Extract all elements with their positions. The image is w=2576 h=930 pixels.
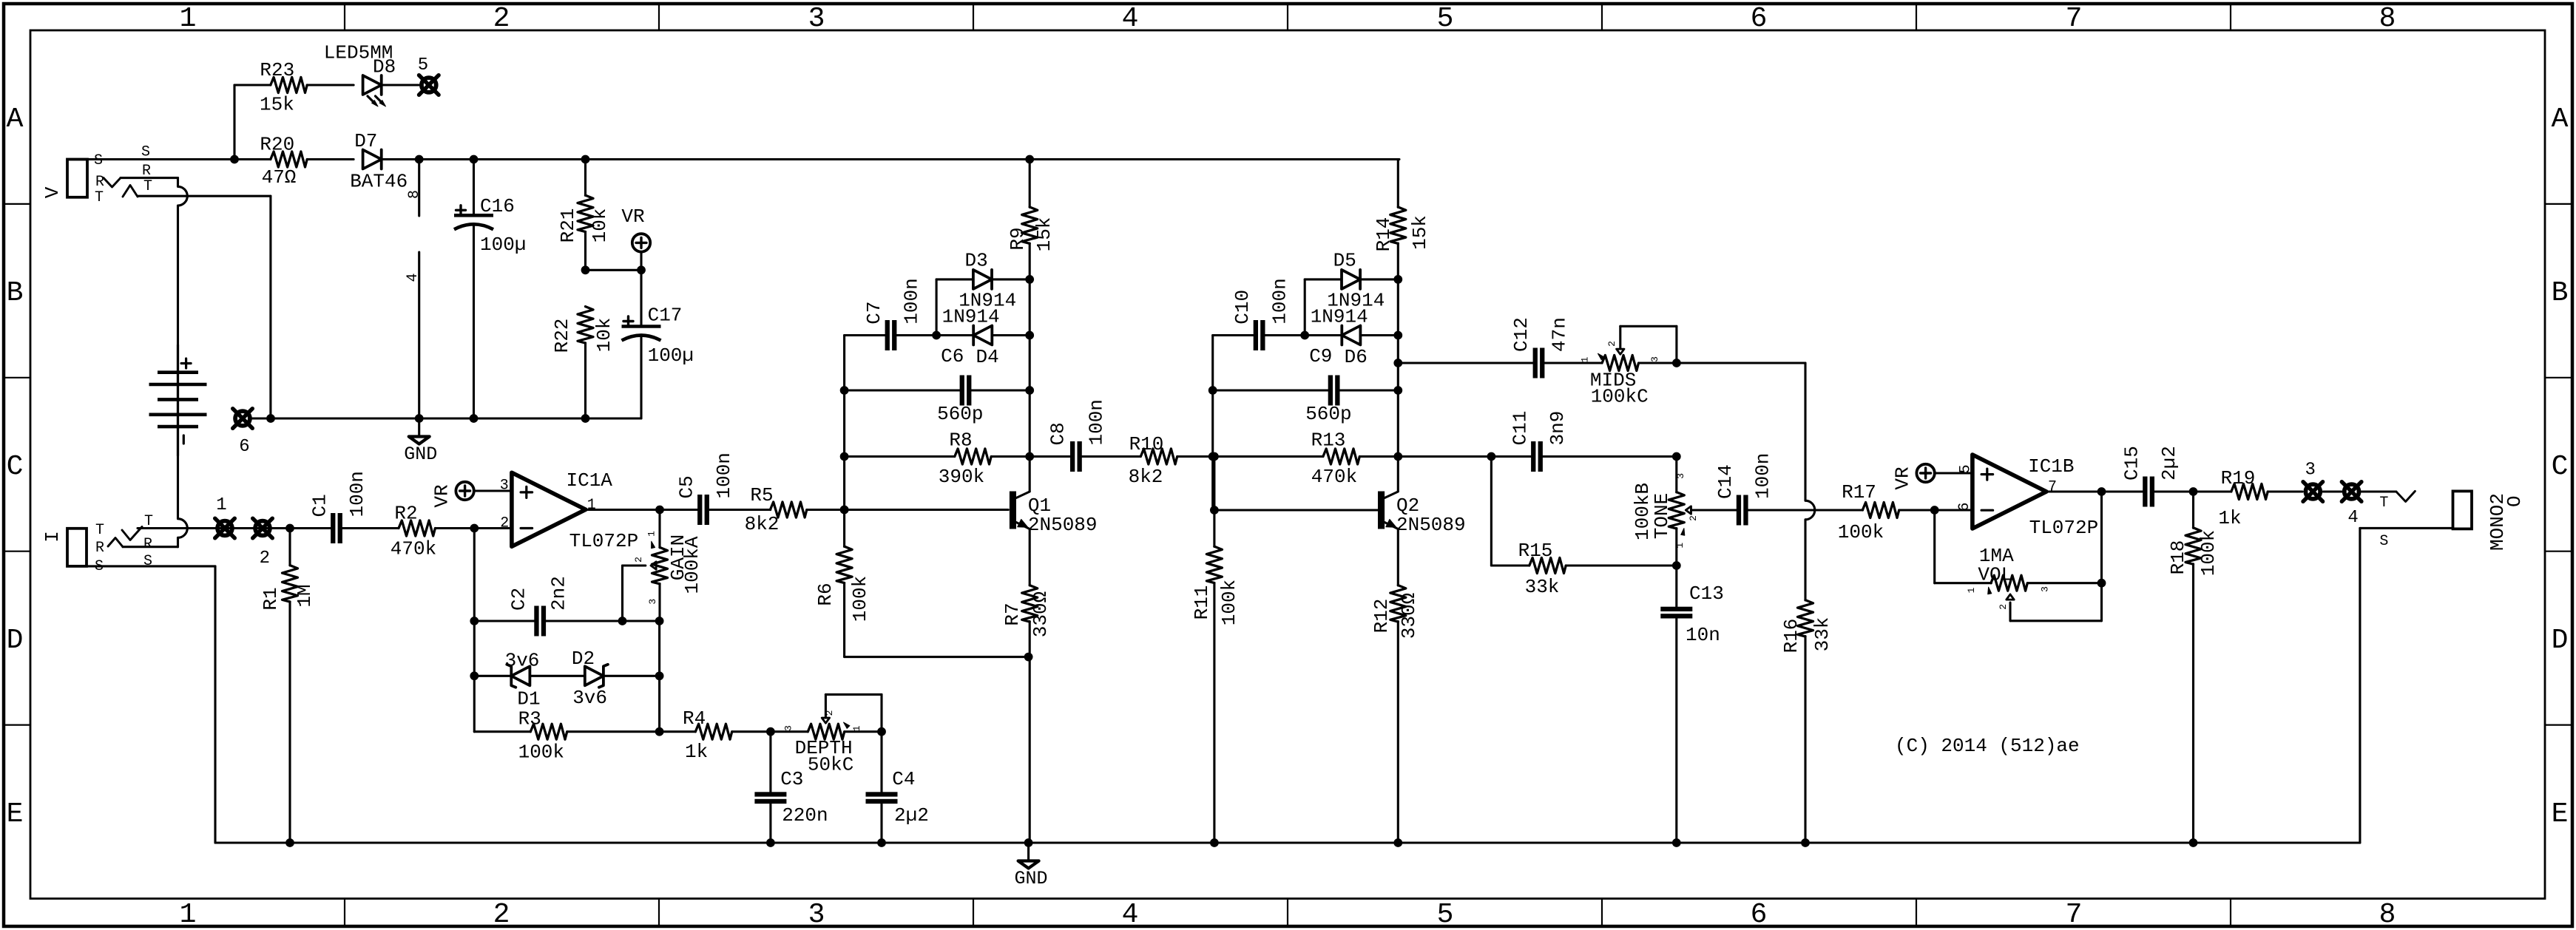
- svg-text:R12: R12: [1370, 599, 1393, 634]
- svg-text:100µ: 100µ: [648, 344, 694, 367]
- svg-text:T: T: [2379, 495, 2388, 512]
- svg-text:D5: D5: [1333, 250, 1356, 272]
- svg-text:C8: C8: [1047, 422, 1069, 445]
- svg-text:T: T: [95, 522, 104, 539]
- svg-text:(C) 2014 (512)ae: (C) 2014 (512)ae: [1895, 735, 2080, 757]
- svg-text:10k: 10k: [589, 208, 611, 243]
- svg-text:1: 1: [216, 495, 226, 515]
- svg-text:R4: R4: [683, 707, 706, 730]
- svg-text:GND: GND: [404, 444, 437, 465]
- svg-text:7: 7: [2048, 479, 2057, 496]
- svg-text:2N5089: 2N5089: [1396, 514, 1466, 536]
- svg-text:R3: R3: [518, 707, 541, 730]
- svg-text:390k: 390k: [939, 466, 984, 488]
- svg-text:C9: C9: [1309, 345, 1332, 367]
- svg-text:8: 8: [2379, 3, 2396, 35]
- svg-text:TL072P: TL072P: [2029, 517, 2099, 539]
- svg-text:E: E: [2552, 798, 2569, 830]
- svg-text:R22: R22: [551, 319, 573, 353]
- svg-text:15k: 15k: [1033, 217, 1055, 252]
- svg-text:R5: R5: [750, 484, 773, 506]
- svg-text:8: 8: [406, 190, 423, 199]
- svg-text:3: 3: [808, 3, 825, 35]
- svg-text:2: 2: [1688, 515, 1699, 521]
- svg-text:5: 5: [1957, 464, 1974, 473]
- svg-text:10k: 10k: [593, 318, 615, 353]
- svg-text:R23: R23: [260, 59, 294, 81]
- svg-text:V: V: [41, 186, 64, 198]
- svg-text:E: E: [7, 798, 24, 830]
- svg-text:3v6: 3v6: [505, 650, 540, 672]
- svg-text:1: 1: [180, 3, 197, 35]
- svg-text:R17: R17: [1842, 481, 1876, 503]
- svg-text:D7: D7: [354, 130, 377, 152]
- svg-text:R11: R11: [1191, 586, 1213, 620]
- svg-text:VOL: VOL: [1978, 564, 2012, 586]
- svg-text:2: 2: [493, 899, 510, 930]
- svg-text:B: B: [7, 277, 24, 309]
- svg-text:33k: 33k: [1525, 576, 1560, 598]
- svg-text:3: 3: [1675, 473, 1686, 479]
- svg-text:TONE: TONE: [1651, 493, 1673, 539]
- svg-text:C: C: [7, 451, 24, 483]
- svg-text:D2: D2: [572, 648, 595, 670]
- svg-text:2: 2: [824, 710, 835, 716]
- svg-text:3: 3: [783, 725, 794, 731]
- svg-text:47Ω: 47Ω: [262, 166, 297, 189]
- svg-text:6: 6: [1751, 3, 1768, 35]
- svg-text:C1: C1: [309, 494, 331, 517]
- svg-text:2: 2: [493, 3, 510, 35]
- svg-text:R20: R20: [260, 134, 294, 156]
- svg-text:4: 4: [2347, 508, 2358, 528]
- svg-text:330Ω: 330Ω: [1030, 591, 1052, 637]
- svg-text:7: 7: [2066, 899, 2083, 930]
- svg-text:R16: R16: [1780, 619, 1802, 654]
- svg-text:100n: 100n: [1752, 453, 1774, 499]
- svg-text:6: 6: [1751, 899, 1768, 930]
- svg-text:C11: C11: [1510, 411, 1532, 446]
- svg-text:R: R: [143, 536, 152, 553]
- svg-text:C15: C15: [2121, 446, 2143, 481]
- svg-text:S: S: [2379, 533, 2388, 550]
- svg-text:C10: C10: [1231, 290, 1254, 325]
- svg-text:A: A: [7, 103, 24, 135]
- svg-text:VR: VR: [1892, 466, 1914, 489]
- svg-text:D8: D8: [373, 55, 396, 78]
- svg-text:33k: 33k: [1811, 617, 1833, 652]
- svg-text:2: 2: [260, 549, 270, 568]
- svg-text:6: 6: [239, 437, 249, 457]
- svg-text:R10: R10: [1129, 433, 1164, 455]
- svg-text:2: 2: [1606, 341, 1617, 347]
- svg-text:IC1B: IC1B: [2028, 455, 2074, 478]
- svg-text:3: 3: [808, 899, 825, 930]
- svg-text:R: R: [95, 540, 104, 557]
- svg-text:5: 5: [1437, 899, 1454, 930]
- svg-text:2: 2: [633, 557, 644, 563]
- svg-text:6: 6: [1956, 503, 1973, 512]
- svg-text:470k: 470k: [391, 538, 436, 560]
- svg-text:1: 1: [587, 497, 596, 514]
- svg-text:A: A: [2552, 103, 2569, 135]
- svg-text:R14: R14: [1373, 217, 1395, 252]
- svg-text:5: 5: [1437, 3, 1454, 35]
- svg-text:T: T: [143, 178, 152, 195]
- svg-text:100µ: 100µ: [480, 234, 526, 256]
- svg-text:C14: C14: [1714, 464, 1737, 499]
- svg-text:T: T: [144, 513, 153, 530]
- svg-text:4: 4: [1122, 899, 1139, 930]
- svg-text:C4: C4: [892, 768, 915, 790]
- svg-text:C6: C6: [941, 345, 964, 367]
- svg-text:D: D: [2552, 625, 2569, 656]
- svg-text:C: C: [2552, 451, 2569, 483]
- svg-text:8k2: 8k2: [745, 513, 780, 535]
- svg-text:C17: C17: [648, 305, 683, 327]
- svg-text:100n: 100n: [346, 471, 368, 517]
- svg-text:3: 3: [500, 477, 509, 494]
- svg-text:B: B: [2552, 277, 2569, 309]
- svg-text:2n2: 2n2: [548, 576, 570, 611]
- svg-text:8k2: 8k2: [1129, 466, 1163, 488]
- svg-text:100n: 100n: [1086, 399, 1108, 445]
- svg-text:1N914: 1N914: [942, 306, 1000, 328]
- svg-text:7: 7: [2066, 3, 2083, 35]
- svg-text:100k: 100k: [1218, 580, 1240, 625]
- svg-text:C13: C13: [1689, 583, 1724, 605]
- svg-text:3n9: 3n9: [1546, 411, 1569, 446]
- svg-text:470k: 470k: [1311, 466, 1357, 488]
- svg-text:D6: D6: [1345, 346, 1368, 368]
- svg-text:330Ω: 330Ω: [1398, 593, 1420, 639]
- svg-text:R19: R19: [2221, 467, 2256, 489]
- svg-text:3: 3: [1649, 356, 1660, 362]
- svg-text:GND: GND: [1014, 868, 1047, 889]
- svg-text:8: 8: [2379, 899, 2396, 930]
- svg-text:100kA: 100kA: [681, 536, 703, 594]
- svg-text:100kC: 100kC: [1591, 386, 1649, 408]
- svg-text:I: I: [41, 531, 64, 543]
- svg-text:560p: 560p: [1305, 403, 1351, 425]
- svg-text:1: 1: [180, 899, 197, 930]
- svg-text:3: 3: [2040, 586, 2051, 592]
- svg-text:1k: 1k: [685, 741, 708, 763]
- svg-text:BAT46: BAT46: [350, 170, 408, 192]
- svg-text:5: 5: [418, 55, 428, 75]
- svg-text:1M: 1M: [294, 584, 316, 607]
- svg-text:100n: 100n: [1269, 278, 1291, 324]
- svg-text:S: S: [141, 144, 150, 161]
- svg-text:1: 1: [1966, 587, 1977, 593]
- svg-text:R13: R13: [1311, 430, 1346, 452]
- svg-text:VR: VR: [621, 206, 644, 228]
- svg-text:1k: 1k: [2218, 507, 2241, 529]
- svg-text:15k: 15k: [1409, 215, 1431, 250]
- svg-text:D: D: [7, 625, 24, 656]
- svg-text:100n: 100n: [713, 452, 735, 498]
- svg-text:R: R: [142, 163, 151, 180]
- svg-text:1: 1: [851, 725, 862, 731]
- svg-text:15k: 15k: [260, 94, 294, 116]
- svg-text:R: R: [95, 174, 104, 191]
- svg-text:S: S: [143, 553, 152, 570]
- svg-text:R8: R8: [949, 430, 972, 452]
- svg-text:2: 2: [1998, 604, 2009, 610]
- svg-text:T: T: [95, 189, 104, 206]
- svg-text:TL072P: TL072P: [569, 530, 639, 552]
- svg-text:D1: D1: [517, 688, 540, 710]
- svg-text:220n: 220n: [782, 804, 828, 827]
- svg-text:R9: R9: [1007, 227, 1029, 250]
- svg-text:4: 4: [1122, 3, 1139, 35]
- svg-text:C7: C7: [863, 301, 885, 324]
- svg-text:R7: R7: [1001, 603, 1024, 625]
- svg-text:1: 1: [1580, 356, 1591, 362]
- svg-text:R21: R21: [557, 208, 579, 243]
- svg-text:1N914: 1N914: [1311, 306, 1368, 328]
- svg-text:C16: C16: [480, 195, 515, 217]
- svg-text:100k: 100k: [2197, 530, 2220, 576]
- svg-text:C2: C2: [507, 588, 530, 611]
- svg-text:50kC: 50kC: [808, 754, 853, 776]
- svg-text:C5: C5: [676, 475, 698, 498]
- svg-text:100k: 100k: [1838, 521, 1884, 543]
- svg-text:VR: VR: [431, 484, 453, 507]
- svg-text:S: S: [94, 152, 103, 169]
- svg-text:1: 1: [1674, 543, 1686, 549]
- svg-text:D3: D3: [965, 250, 988, 272]
- svg-text:D4: D4: [976, 346, 999, 368]
- svg-text:100k: 100k: [518, 741, 564, 764]
- svg-text:100k: 100k: [849, 576, 871, 622]
- svg-text:C12: C12: [1510, 317, 1532, 352]
- svg-text:10n: 10n: [1686, 624, 1720, 646]
- svg-text:R6: R6: [814, 583, 836, 605]
- svg-text:3v6: 3v6: [572, 687, 607, 709]
- svg-text:IC1A: IC1A: [567, 469, 613, 492]
- svg-text:4: 4: [405, 273, 422, 282]
- svg-text:R15: R15: [1518, 540, 1553, 562]
- svg-text:O: O: [2504, 495, 2526, 507]
- svg-text:2N5089: 2N5089: [1028, 514, 1098, 536]
- svg-text:R18: R18: [2167, 540, 2189, 575]
- svg-text:C3: C3: [780, 768, 803, 790]
- svg-text:R2: R2: [394, 503, 417, 525]
- svg-text:2: 2: [500, 515, 509, 532]
- svg-text:1: 1: [646, 531, 657, 537]
- svg-text:3: 3: [2305, 461, 2315, 481]
- svg-text:560p: 560p: [937, 403, 983, 425]
- svg-text:2µ2: 2µ2: [894, 804, 929, 827]
- svg-text:100n: 100n: [901, 278, 923, 324]
- svg-text:2µ2: 2µ2: [2158, 446, 2180, 481]
- svg-text:3: 3: [647, 599, 658, 605]
- svg-text:R1: R1: [260, 587, 282, 610]
- svg-text:47n: 47n: [1549, 317, 1571, 352]
